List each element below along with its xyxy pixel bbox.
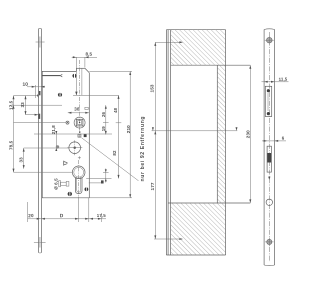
svg-text:153: 153 bbox=[149, 84, 154, 92]
svg-text:20: 20 bbox=[28, 213, 34, 218]
gray dot left bbox=[56, 145, 59, 148]
svg-text:nur bei 92 Entfernung: nur bei 92 Entfernung bbox=[140, 116, 146, 182]
follower (nut) bbox=[74, 117, 85, 128]
33 bottom dim bbox=[23, 148, 25, 169]
bottom screw hole bbox=[267, 239, 272, 244]
svg-text:48: 48 bbox=[113, 107, 118, 113]
svg-text:11,5: 11,5 bbox=[279, 77, 288, 82]
deadbolt slot bbox=[267, 146, 271, 172]
11.5 dim bbox=[262, 81, 289, 83]
euro profile cylinder bbox=[72, 166, 85, 194]
faceplate screw top bbox=[36, 37, 45, 48]
screw circle near slot bbox=[72, 73, 76, 78]
21.8 dim bbox=[55, 131, 57, 151]
6 dim bbox=[262, 140, 286, 142]
230 dim bbox=[249, 65, 251, 203]
hatched frame block top bbox=[171, 30, 226, 65]
top screw hole bbox=[267, 37, 273, 43]
cylinder fixing screw side shape bbox=[59, 181, 69, 187]
arrow tick at faceplate y=95.6 bbox=[37, 95, 38, 97]
right inner dim line 26/19 bbox=[103, 105, 109, 134]
33 top dim bbox=[25, 96, 27, 115]
lock case outline bbox=[42, 68, 89, 198]
38 dim bbox=[68, 112, 89, 114]
svg-text:17,5: 17,5 bbox=[97, 213, 106, 218]
small dim at cylinder right bbox=[86, 169, 111, 183]
small rect at top of D-ext bbox=[85, 107, 88, 109]
latch cutout bbox=[265, 86, 271, 116]
svg-text:17,5: 17,5 bbox=[8, 100, 13, 110]
bowtie symbol bbox=[64, 161, 68, 166]
tiny cross bbox=[78, 156, 81, 159]
leader to text bbox=[82, 138, 139, 181]
faceplate strip bbox=[39, 28, 42, 253]
210 dim line bbox=[89, 71, 132, 197]
153/177 dim line bbox=[152, 42, 238, 239]
crosshair circle bbox=[69, 142, 81, 154]
follower centerline vertical bbox=[78, 60, 80, 138]
svg-text:D: D bbox=[60, 213, 64, 219]
svg-text:230: 230 bbox=[245, 130, 250, 138]
svg-text:8,5: 8,5 bbox=[85, 52, 92, 57]
svg-text:82: 82 bbox=[112, 150, 117, 156]
svg-text:Ø 6,5: Ø 6,5 bbox=[53, 178, 58, 190]
hatched frame block bottom bbox=[171, 203, 226, 255]
svg-text:33: 33 bbox=[18, 157, 23, 163]
svg-text:177: 177 bbox=[150, 182, 155, 190]
case screw bbox=[58, 93, 62, 98]
dark dots bottom of case bbox=[68, 192, 72, 197]
left dim column extension lines bbox=[10, 96, 112, 173]
latch dark mark on faceplate bbox=[38, 114, 40, 119]
8.5 dim top bbox=[72, 56, 97, 58]
circle bbox=[266, 199, 272, 205]
hatched frame column right bbox=[217, 65, 225, 203]
svg-text:19: 19 bbox=[101, 126, 106, 132]
17.5 / 78.5 dim line bbox=[13, 96, 15, 173]
bottom dim row 20 D 17.5 bbox=[28, 197, 106, 223]
slot bottom arrow bbox=[75, 92, 77, 96]
latch bar bbox=[42, 74, 62, 77]
svg-text:38: 38 bbox=[74, 107, 80, 112]
48/82 dim line bbox=[116, 95, 122, 178]
svg-text:33: 33 bbox=[20, 102, 25, 108]
svg-text:21,8: 21,8 bbox=[51, 125, 56, 134]
svg-text:78,5: 78,5 bbox=[8, 140, 13, 150]
internal slot lines bbox=[73, 57, 119, 95]
svg-text:210: 210 bbox=[126, 125, 131, 133]
two small squares below follower bbox=[78, 134, 81, 137]
svg-text:26: 26 bbox=[101, 111, 106, 117]
faceplate screw bottom bbox=[34, 237, 46, 248]
